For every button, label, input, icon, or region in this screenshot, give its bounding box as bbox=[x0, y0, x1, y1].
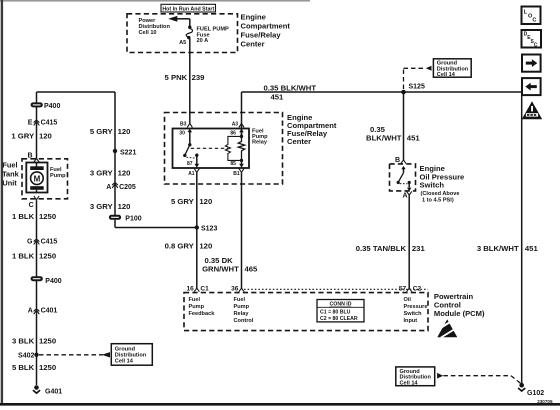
relay pin 87 bbox=[187, 154, 199, 168]
svg-text:Hot In Run And Start: Hot In Run And Start bbox=[162, 6, 214, 12]
label Oil Pressure Switch Input bbox=[404, 297, 428, 324]
svg-text:120: 120 bbox=[118, 202, 131, 211]
svg-text:A1: A1 bbox=[188, 171, 195, 177]
PCM pin 57 C2 bbox=[399, 286, 422, 293]
wire 0.35 BLK/WHT 451 ground rail bbox=[242, 84, 522, 137]
svg-text:86: 86 bbox=[230, 131, 236, 137]
svg-text:B3: B3 bbox=[180, 121, 187, 127]
connector A C205 bbox=[106, 183, 136, 191]
wire 3 BLK/WHT 451 to G102 bbox=[477, 92, 539, 385]
fuel pump relay box bbox=[173, 129, 269, 169]
arrow to Power Distribution bbox=[168, 16, 190, 26]
box Ground Distribution Cell 14 (bottom right) bbox=[396, 367, 435, 387]
svg-text:Tank: Tank bbox=[2, 169, 20, 178]
svg-text:M: M bbox=[34, 174, 41, 183]
svg-text:Cell 10: Cell 10 bbox=[139, 30, 157, 36]
wire 5 BLK 1250 bbox=[12, 363, 56, 372]
fuel tank unit box bbox=[22, 159, 68, 199]
svg-text:G102: G102 bbox=[527, 390, 544, 397]
svg-text:Compartment: Compartment bbox=[241, 22, 291, 31]
svg-text:451: 451 bbox=[525, 244, 539, 253]
wire 0.35 DK GRN/WHT 465 relay B1 to PCM 36 bbox=[202, 173, 258, 289]
node B fuel tank bbox=[28, 152, 40, 162]
svg-text:Cell 14: Cell 14 bbox=[437, 72, 456, 78]
svg-text:B: B bbox=[28, 152, 33, 159]
relay pin 86 arrow bbox=[230, 129, 243, 137]
svg-text:Pump: Pump bbox=[234, 304, 250, 310]
connector G C415 bbox=[27, 239, 57, 246]
svg-text:Switch: Switch bbox=[420, 181, 445, 190]
svg-text:C401: C401 bbox=[41, 307, 58, 314]
svg-text:1 GRY: 1 GRY bbox=[11, 132, 34, 141]
svg-text:S402: S402 bbox=[18, 353, 34, 360]
node C fuel tank bbox=[29, 196, 39, 209]
svg-text:87: 87 bbox=[187, 161, 193, 167]
svg-text:16: 16 bbox=[186, 286, 194, 293]
svg-text:BLK/WHT: BLK/WHT bbox=[366, 134, 402, 143]
svg-text:Relay: Relay bbox=[252, 140, 268, 146]
svg-text:GRN/WHT: GRN/WHT bbox=[202, 264, 239, 273]
svg-text:Cell 14: Cell 14 bbox=[115, 358, 134, 364]
svg-text:Feedback: Feedback bbox=[189, 311, 216, 317]
label Engine Compartment Fuse/Relay Center (relay) bbox=[287, 113, 337, 146]
svg-text:1250: 1250 bbox=[39, 212, 56, 221]
svg-text:S125: S125 bbox=[409, 84, 425, 91]
svg-text:30: 30 bbox=[179, 131, 185, 137]
wire 0.8 GRY 120 bbox=[165, 242, 213, 251]
svg-text:36: 36 bbox=[231, 286, 239, 293]
svg-text:Module (PCM): Module (PCM) bbox=[434, 309, 485, 318]
svg-text:C: C bbox=[29, 202, 34, 209]
svg-text:1 BLK: 1 BLK bbox=[12, 252, 35, 261]
svg-text:120: 120 bbox=[199, 242, 212, 251]
svg-text:Control: Control bbox=[234, 318, 254, 324]
svg-text:P100: P100 bbox=[125, 216, 141, 223]
wire segment bbox=[36, 107, 38, 159]
switch pin B bbox=[395, 157, 406, 164]
PCM pin 36 bbox=[231, 286, 244, 293]
svg-text:P400: P400 bbox=[44, 103, 60, 110]
relay pin 85 arrow bbox=[230, 160, 243, 167]
wire elbow to S123 bbox=[115, 220, 197, 228]
svg-text:451: 451 bbox=[271, 93, 285, 102]
svg-text:1 to 4.5 PSI): 1 to 4.5 PSI) bbox=[422, 197, 454, 203]
svg-text:Pressure: Pressure bbox=[404, 304, 428, 310]
label Engine Compartment Fuse/Relay Center (top) bbox=[241, 13, 291, 49]
svg-text:B: B bbox=[395, 157, 400, 164]
reference arrow Ground Distribution to G102 bbox=[437, 373, 520, 383]
svg-text:CONN ID: CONN ID bbox=[330, 302, 352, 308]
relay actuator dashed link bbox=[191, 147, 228, 149]
label Fuel Pump Relay Control bbox=[234, 297, 254, 324]
svg-text:Center: Center bbox=[287, 137, 311, 146]
svg-text:G: G bbox=[27, 239, 33, 246]
fuse FUEL PUMP Fuse 20 A bbox=[179, 26, 229, 47]
svg-text:120: 120 bbox=[118, 169, 131, 178]
icon DESC bbox=[522, 30, 542, 48]
PCM pin 16 C1 bbox=[186, 286, 209, 293]
wire 3 BLK 1250 bbox=[12, 337, 56, 346]
wire 3 GRY 120 (2) bbox=[90, 202, 131, 211]
powertrain control module box bbox=[184, 289, 428, 330]
label Powertrain Control Module (PCM) bbox=[434, 292, 485, 318]
relay pin A1 bbox=[188, 168, 199, 177]
wire 5 GRY 120 relay A1 to S123 bbox=[171, 173, 212, 289]
svg-text:20 A: 20 A bbox=[197, 38, 209, 44]
svg-text:A: A bbox=[403, 192, 408, 199]
connector E C415 bbox=[28, 120, 58, 127]
svg-text:Engine: Engine bbox=[241, 13, 266, 22]
wire 5 PNK 239 fuse to relay pin 30 bbox=[165, 39, 205, 124]
wire segment bbox=[36, 281, 38, 385]
svg-text:A5: A5 bbox=[179, 40, 186, 46]
ESD warning triangle (PCM) bbox=[437, 319, 458, 337]
svg-text:120: 120 bbox=[118, 127, 131, 136]
svg-text:5 BLK: 5 BLK bbox=[12, 363, 35, 372]
svg-text:E: E bbox=[28, 120, 33, 127]
icon arrow right bbox=[522, 55, 541, 72]
wire 1 BLK 1250 bbox=[12, 200, 56, 276]
wire 0.35 TAN/BLK 231 to PCM 57 bbox=[356, 195, 426, 288]
relay pin B1 bbox=[233, 168, 244, 177]
relay pin 30 arrow bbox=[179, 129, 192, 145]
svg-text:Fuel: Fuel bbox=[189, 297, 201, 303]
svg-text:85: 85 bbox=[230, 161, 236, 167]
svg-text:1250: 1250 bbox=[39, 337, 56, 346]
svg-text:G401: G401 bbox=[45, 389, 62, 396]
switch pin A bbox=[403, 191, 412, 199]
svg-text:Relay: Relay bbox=[234, 311, 250, 317]
left rail top bbox=[37, 92, 116, 215]
svg-text:Fuse/Relay: Fuse/Relay bbox=[241, 31, 282, 40]
relay pin B3 bbox=[180, 121, 192, 127]
svg-text:3 BLK/WHT: 3 BLK/WHT bbox=[477, 244, 519, 253]
box Ground Distribution Cell 14 (top right) bbox=[433, 59, 471, 78]
CONN ID table bbox=[317, 300, 364, 323]
svg-text:Fuel: Fuel bbox=[234, 297, 246, 303]
svg-text:Input: Input bbox=[404, 318, 418, 324]
connector P400 (power) bbox=[31, 102, 61, 110]
icon LOC bbox=[522, 7, 541, 25]
svg-text:3 BLK: 3 BLK bbox=[12, 337, 35, 346]
svg-text:0.35 TAN/BLK: 0.35 TAN/BLK bbox=[356, 244, 407, 253]
label Fuel Tank Unit bbox=[2, 160, 20, 187]
svg-text:1 BLK: 1 BLK bbox=[12, 212, 35, 221]
ground G401 bbox=[33, 385, 62, 395]
svg-text:1250: 1250 bbox=[39, 252, 56, 261]
label Power Distribution Cell 10 bbox=[139, 18, 171, 36]
connector A C401 bbox=[28, 307, 58, 314]
svg-text:Cell 14: Cell 14 bbox=[400, 380, 419, 386]
svg-text:230705: 230705 bbox=[537, 399, 553, 404]
splice S123 bbox=[195, 225, 218, 232]
label Fuel Pump Feedback bbox=[189, 297, 216, 317]
splice S125 bbox=[401, 84, 425, 95]
svg-text:465: 465 bbox=[245, 264, 259, 273]
connector P400 (ground) bbox=[31, 276, 62, 285]
relay pin A3 bbox=[232, 121, 244, 127]
svg-text:C2 = 80 CLEAR: C2 = 80 CLEAR bbox=[320, 316, 358, 322]
svg-text:P400: P400 bbox=[45, 278, 61, 285]
relay coil with parallel resistor bbox=[225, 135, 244, 162]
svg-text:120: 120 bbox=[39, 132, 52, 141]
svg-text:3 GRY: 3 GRY bbox=[90, 169, 113, 178]
icon arrow left bbox=[522, 78, 541, 95]
svg-text:5 GRY: 5 GRY bbox=[171, 197, 194, 206]
label Engine Oil Pressure Switch bbox=[420, 164, 465, 204]
wire 1 BLK 1250 (2) bbox=[12, 252, 56, 261]
svg-text:Fuel: Fuel bbox=[2, 160, 17, 169]
svg-text:A3: A3 bbox=[232, 121, 239, 127]
svg-text:3 GRY: 3 GRY bbox=[90, 202, 113, 211]
svg-text:B1: B1 bbox=[233, 171, 240, 177]
svg-text:5 PNK: 5 PNK bbox=[165, 73, 188, 82]
fuel pump motor M bbox=[30, 163, 66, 193]
splice S221 bbox=[113, 149, 137, 157]
svg-text:0.8 GRY: 0.8 GRY bbox=[165, 242, 194, 251]
splice S402 bbox=[18, 353, 39, 360]
relay switch contact bbox=[183, 143, 195, 158]
engine oil pressure switch box bbox=[390, 164, 416, 191]
svg-text:S123: S123 bbox=[201, 225, 217, 232]
box Ground Distribution Cell 14 (bottom left) bbox=[111, 344, 152, 366]
svg-text:Center: Center bbox=[241, 40, 265, 49]
svg-text:C415: C415 bbox=[41, 239, 58, 246]
svg-text:239: 239 bbox=[192, 73, 205, 82]
icon warning triangle bbox=[522, 101, 542, 119]
wire label 1 GRY 120 bbox=[11, 132, 51, 141]
svg-text:C: C bbox=[534, 42, 538, 48]
svg-text:C1: C1 bbox=[200, 286, 209, 293]
svg-text:5 GRY: 5 GRY bbox=[90, 127, 113, 136]
reference arrow S402 to Ground Distribution bbox=[39, 352, 110, 357]
svg-text:Switch: Switch bbox=[404, 311, 423, 317]
svg-text:Unit: Unit bbox=[2, 178, 17, 187]
svg-text:451: 451 bbox=[407, 134, 421, 143]
svg-text:C: C bbox=[532, 18, 536, 24]
svg-text:231: 231 bbox=[412, 244, 426, 253]
svg-text:1250: 1250 bbox=[39, 363, 56, 372]
svg-text:C205: C205 bbox=[119, 184, 136, 191]
svg-text:120: 120 bbox=[199, 197, 212, 206]
svg-text:Oil: Oil bbox=[404, 297, 412, 303]
svg-text:Pump: Pump bbox=[50, 173, 66, 179]
ground G102 bbox=[518, 383, 553, 404]
wire 3 GRY 120 bbox=[90, 169, 131, 178]
reference arrow S125 to Ground Distribution bbox=[404, 66, 432, 89]
svg-text:(Closed Above: (Closed Above bbox=[421, 191, 460, 197]
svg-text:S221: S221 bbox=[120, 150, 136, 157]
header box Hot In Run And Start bbox=[161, 4, 216, 12]
svg-text:FUEL PUMP: FUEL PUMP bbox=[197, 26, 229, 32]
svg-text:C1 = 80 BLU: C1 = 80 BLU bbox=[320, 310, 351, 316]
svg-text:0.35 BLK/WHT: 0.35 BLK/WHT bbox=[264, 84, 317, 93]
wire 0.35 BLK/WHT 451 S125 to oil switch bbox=[366, 92, 420, 160]
wire 5 GRY 120 (left rail) bbox=[90, 127, 131, 136]
svg-text:Pump: Pump bbox=[189, 304, 205, 310]
engine compartment fuse/relay center box (relay) bbox=[165, 113, 283, 185]
svg-text:A: A bbox=[28, 307, 33, 314]
engine compartment fuse/relay center box (fuse) bbox=[127, 14, 238, 53]
svg-text:A: A bbox=[106, 184, 111, 191]
oil pressure switch contact bbox=[397, 166, 412, 191]
svg-text:C415: C415 bbox=[41, 120, 58, 127]
connector P100 bbox=[109, 215, 142, 223]
